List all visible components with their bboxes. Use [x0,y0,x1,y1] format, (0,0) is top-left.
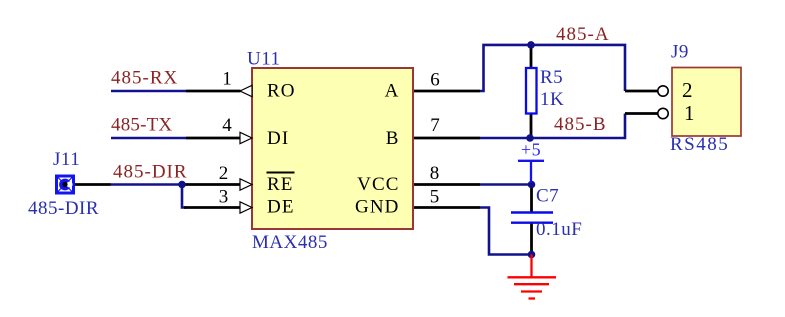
svg-text:485-B: 485-B [554,114,607,135]
svg-text:DI: DI [267,128,289,149]
svg-text:4: 4 [222,115,233,136]
svg-text:485-DIR: 485-DIR [113,162,188,183]
svg-text:485-RX: 485-RX [111,68,178,89]
svg-text:RE: RE [267,174,293,195]
svg-text:J11: J11 [53,149,80,170]
svg-text:U11: U11 [247,49,281,70]
svg-text:5: 5 [430,187,441,208]
svg-text:B: B [386,128,400,149]
svg-text:RO: RO [267,81,296,102]
svg-text:J9: J9 [671,42,689,63]
svg-text:7: 7 [430,115,441,136]
svg-text:1K: 1K [540,89,564,110]
svg-text:1: 1 [684,101,695,125]
svg-text:6: 6 [430,70,441,91]
svg-text:MAX485: MAX485 [252,232,328,253]
svg-text:2: 2 [682,78,693,102]
svg-text:VCC: VCC [357,174,399,195]
svg-text:485-A: 485-A [556,24,610,45]
svg-text:8: 8 [430,163,441,184]
svg-text:3: 3 [219,187,230,208]
svg-text:RS485: RS485 [670,134,729,155]
svg-text:485-TX: 485-TX [111,115,172,136]
svg-text:0.1uF: 0.1uF [536,219,582,240]
svg-text:485-DIR: 485-DIR [28,198,99,219]
svg-text:2: 2 [219,163,230,184]
svg-text:C7: C7 [536,186,559,207]
svg-text:+5: +5 [521,140,541,160]
svg-text:GND: GND [355,197,399,218]
svg-text:R5: R5 [540,67,563,88]
svg-text:A: A [385,81,400,102]
svg-text:1: 1 [222,69,233,90]
svg-text:DE: DE [267,197,295,218]
